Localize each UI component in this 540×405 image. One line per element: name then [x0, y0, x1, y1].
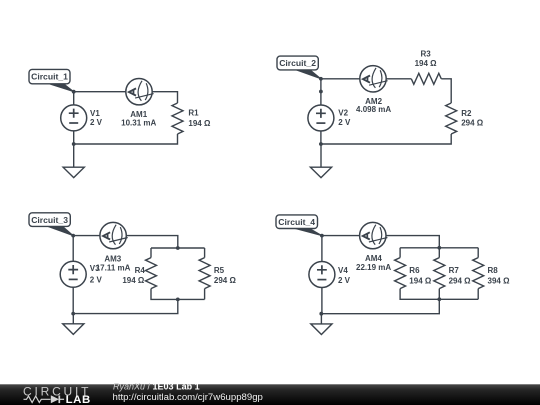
- svg-text:2 V: 2 V: [338, 276, 351, 285]
- svg-text:LAB: LAB: [66, 394, 91, 405]
- svg-text:194 Ω: 194 Ω: [122, 276, 145, 285]
- svg-text:194 Ω: 194 Ω: [409, 276, 432, 285]
- svg-text:2 V: 2 V: [338, 118, 351, 127]
- svg-text:RyanXu / 1E03 Lab 1: RyanXu / 1E03 Lab 1: [113, 382, 200, 392]
- svg-text:2 V: 2 V: [90, 118, 103, 127]
- svg-text:AM4: AM4: [365, 254, 382, 263]
- svg-text:22.19 mA: 22.19 mA: [356, 263, 391, 272]
- svg-text:V4: V4: [338, 266, 348, 275]
- svg-text:4.098 mA: 4.098 mA: [356, 105, 391, 114]
- svg-text:V2: V2: [338, 109, 348, 118]
- svg-text:R4: R4: [135, 266, 146, 275]
- svg-text:17.11 mA: 17.11 mA: [96, 263, 131, 272]
- svg-text:R6: R6: [409, 266, 420, 275]
- svg-text:R8: R8: [488, 266, 499, 275]
- svg-text:194 Ω: 194 Ω: [188, 119, 211, 128]
- svg-text:R3: R3: [420, 50, 431, 59]
- svg-text:2 V: 2 V: [90, 276, 103, 285]
- svg-text:Circuit_1: Circuit_1: [31, 72, 68, 82]
- svg-text:AM3: AM3: [104, 255, 121, 264]
- svg-text:R5: R5: [214, 266, 225, 275]
- svg-text:R7: R7: [449, 266, 460, 275]
- svg-text:Circuit_3: Circuit_3: [31, 215, 68, 225]
- svg-text:194 Ω: 194 Ω: [415, 59, 438, 68]
- svg-text:Circuit_2: Circuit_2: [279, 58, 316, 68]
- svg-text:10.31 mA: 10.31 mA: [121, 118, 156, 127]
- svg-text:http://circuitlab.com/cjr7w6up: http://circuitlab.com/cjr7w6upp89gp: [113, 392, 263, 403]
- svg-text:394 Ω: 394 Ω: [488, 276, 511, 285]
- svg-text:294 Ω: 294 Ω: [449, 276, 472, 285]
- svg-text:V1: V1: [90, 109, 100, 118]
- svg-text:294 Ω: 294 Ω: [214, 276, 237, 285]
- svg-text:Circuit_4: Circuit_4: [278, 217, 315, 227]
- svg-text:R1: R1: [188, 109, 199, 118]
- svg-text:294 Ω: 294 Ω: [461, 119, 484, 128]
- svg-text:R2: R2: [461, 109, 472, 118]
